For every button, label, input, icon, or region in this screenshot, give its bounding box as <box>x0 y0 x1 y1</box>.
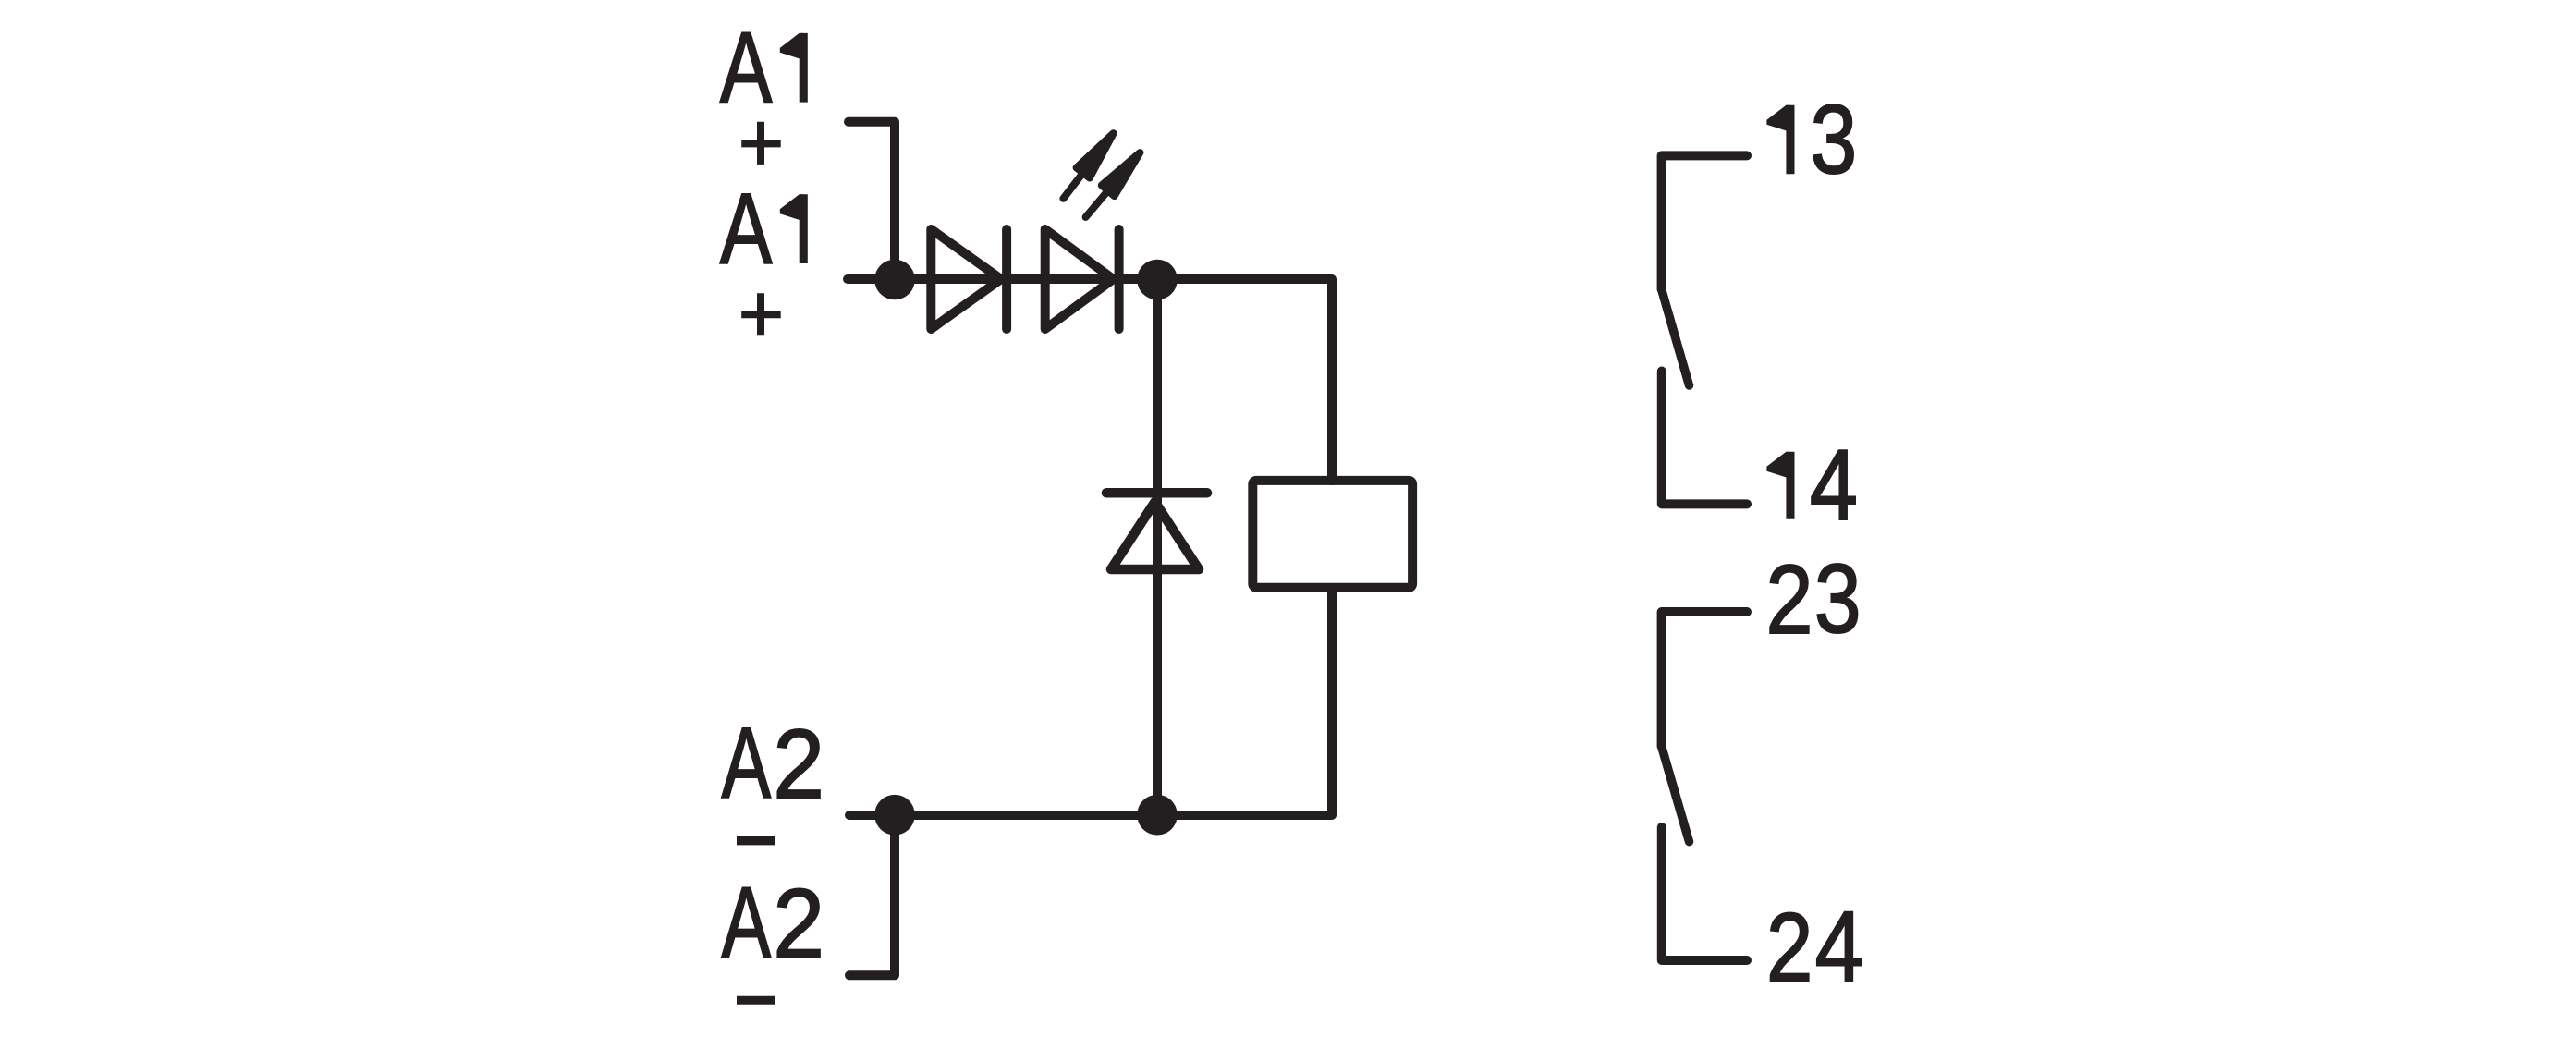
svg-text:A: A <box>720 11 772 124</box>
svg-text:2: 2 <box>1766 893 1813 1002</box>
svg-text:3: 3 <box>1811 85 1858 194</box>
svg-text:2: 2 <box>773 709 824 818</box>
svg-text:4: 4 <box>1815 890 1864 1003</box>
svg-text:A: A <box>722 866 772 979</box>
svg-text:3: 3 <box>1814 543 1862 653</box>
svg-text:2: 2 <box>1765 543 1813 653</box>
svg-text:2: 2 <box>773 869 824 978</box>
svg-text:A: A <box>720 173 772 286</box>
svg-text:4: 4 <box>1810 428 1858 541</box>
svg-text:A: A <box>722 707 772 820</box>
